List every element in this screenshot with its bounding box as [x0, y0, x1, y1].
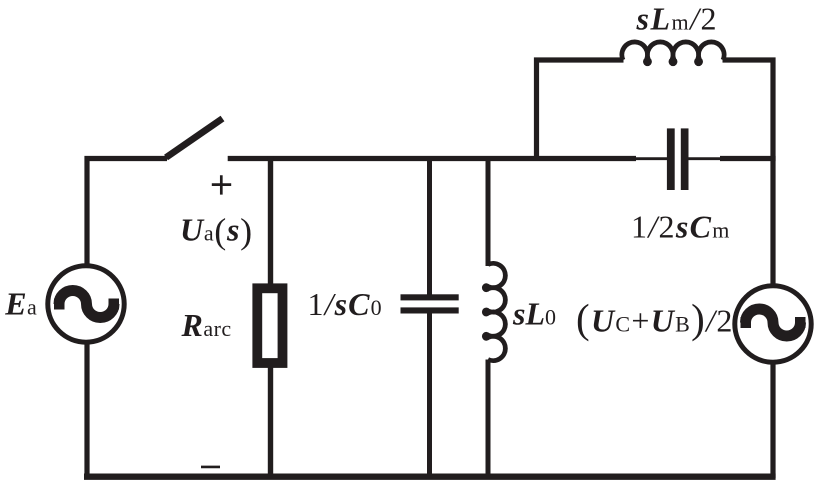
wire: top node from Cm right lead to right vertical [720, 156, 776, 161]
wire: left vertical below E_a to bottom [84, 342, 89, 479]
wire: top node from switch right contact to Cm left lead [228, 156, 636, 161]
wire: thin lead into capacitor Cm left plate [635, 157, 667, 160]
inductor Lm coil [622, 42, 724, 64]
capacitor Cm left plate [667, 128, 675, 190]
wire: R_arc branch bottom [268, 366, 273, 479]
svg-text:Ea: Ea [4, 286, 37, 322]
wire: thin lead from capacitor Cm right plate [689, 157, 722, 160]
wire: left loop from E_a top up and right to switch contact [87, 159, 167, 267]
AC source E_a sine symbol [54, 291, 119, 318]
AC source E_a circle (left) [48, 266, 124, 342]
switch S1 (open blade) [166, 119, 223, 158]
svg-text:sL0: sL0 [512, 296, 556, 332]
svg-text:sLm/2: sLm/2 [636, 1, 719, 37]
wire: C0 branch bottom [427, 313, 432, 479]
wire: right vertical below source to bottom [770, 362, 775, 479]
svg-text:Rarc: Rarc [181, 307, 232, 343]
svg-text:(UC+UB)/2: (UC+UB)/2 [576, 296, 734, 342]
AC source V2 circle (right) [735, 286, 811, 362]
wire: bottom return [84, 474, 776, 480]
AC source V2 sine symbol [741, 309, 806, 336]
wire: R_arc branch top [268, 156, 273, 286]
polarity plus of U_a(s) [212, 175, 231, 194]
svg-text:Ua(s): Ua(s) [180, 211, 253, 251]
wire: top loop left vertical and top run to Lm coil [537, 60, 624, 161]
wire: C0 branch top [427, 156, 432, 295]
inductor L0 coil [484, 263, 505, 360]
wire: L0 branch top [486, 156, 491, 266]
svg-text:1/sC0: 1/sC0 [308, 286, 383, 322]
capacitor C0 top plate [401, 294, 459, 300]
polarity minus of U_a(s) [201, 466, 220, 469]
wire: top loop right run and right vertical down to source [723, 60, 774, 286]
capacitor C0 bottom plate [401, 307, 459, 313]
svg-text:1/2sCm: 1/2sCm [631, 208, 731, 244]
wire: L0 branch bottom [486, 360, 491, 479]
capacitor Cm right plate [681, 128, 689, 190]
resistor R_arc body [257, 288, 282, 363]
